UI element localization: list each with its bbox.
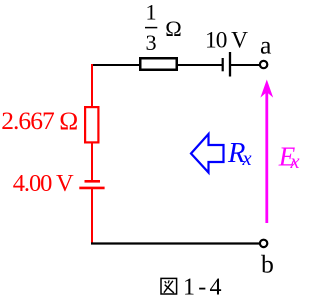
caption 1-4 — [183, 274, 222, 300]
svg-text:2.667 Ω: 2.667 Ω — [1, 106, 78, 135]
svg-text:b: b — [261, 250, 274, 279]
label Ex — [278, 141, 300, 173]
label 2.667 ohm — [1, 106, 78, 135]
svg-text:4.00 V: 4.00 V — [13, 170, 74, 197]
label a — [260, 31, 272, 60]
caption glyph ZU (figure) — [161, 278, 177, 294]
label 10 V — [205, 27, 248, 53]
label 1/3 ohm — [145, 0, 182, 55]
battery E (10 V, top) — [223, 52, 230, 77]
svg-text:1-4: 1-4 — [183, 274, 222, 300]
svg-text:Ω: Ω — [165, 16, 182, 41]
wire resistor to battery (top) — [177, 64, 222, 66]
svg-text:1: 1 — [145, 0, 156, 25]
wire bottom horizontal — [91, 242, 260, 244]
arrow Rx (blue block arrow pointing left) — [191, 134, 224, 173]
terminal a — [260, 61, 267, 68]
svg-text:10 V: 10 V — [205, 27, 248, 53]
battery 4.00 V (left, red) — [79, 181, 104, 188]
svg-text:a: a — [260, 31, 272, 60]
label Rx — [227, 138, 252, 170]
wire top-left horizontal (corner to resistor) — [91, 64, 140, 66]
svg-text:3: 3 — [145, 30, 156, 55]
label b — [261, 250, 274, 279]
svg-text:x: x — [290, 151, 300, 173]
svg-text:x: x — [242, 148, 252, 170]
wire battery to terminal a — [231, 64, 260, 66]
resistor R (1/3 ohm, top) — [140, 58, 177, 70]
arrow Ex (magenta, pointing up) — [262, 81, 273, 223]
wire resistor to battery (left) — [91, 143, 93, 182]
wire left vertical top segment — [91, 64, 93, 107]
label 4.00 V — [13, 170, 74, 197]
wire battery to bottom corner — [91, 188, 93, 244]
terminal b — [260, 240, 267, 247]
resistor 2.667 ohm (left, red) — [85, 107, 98, 142]
